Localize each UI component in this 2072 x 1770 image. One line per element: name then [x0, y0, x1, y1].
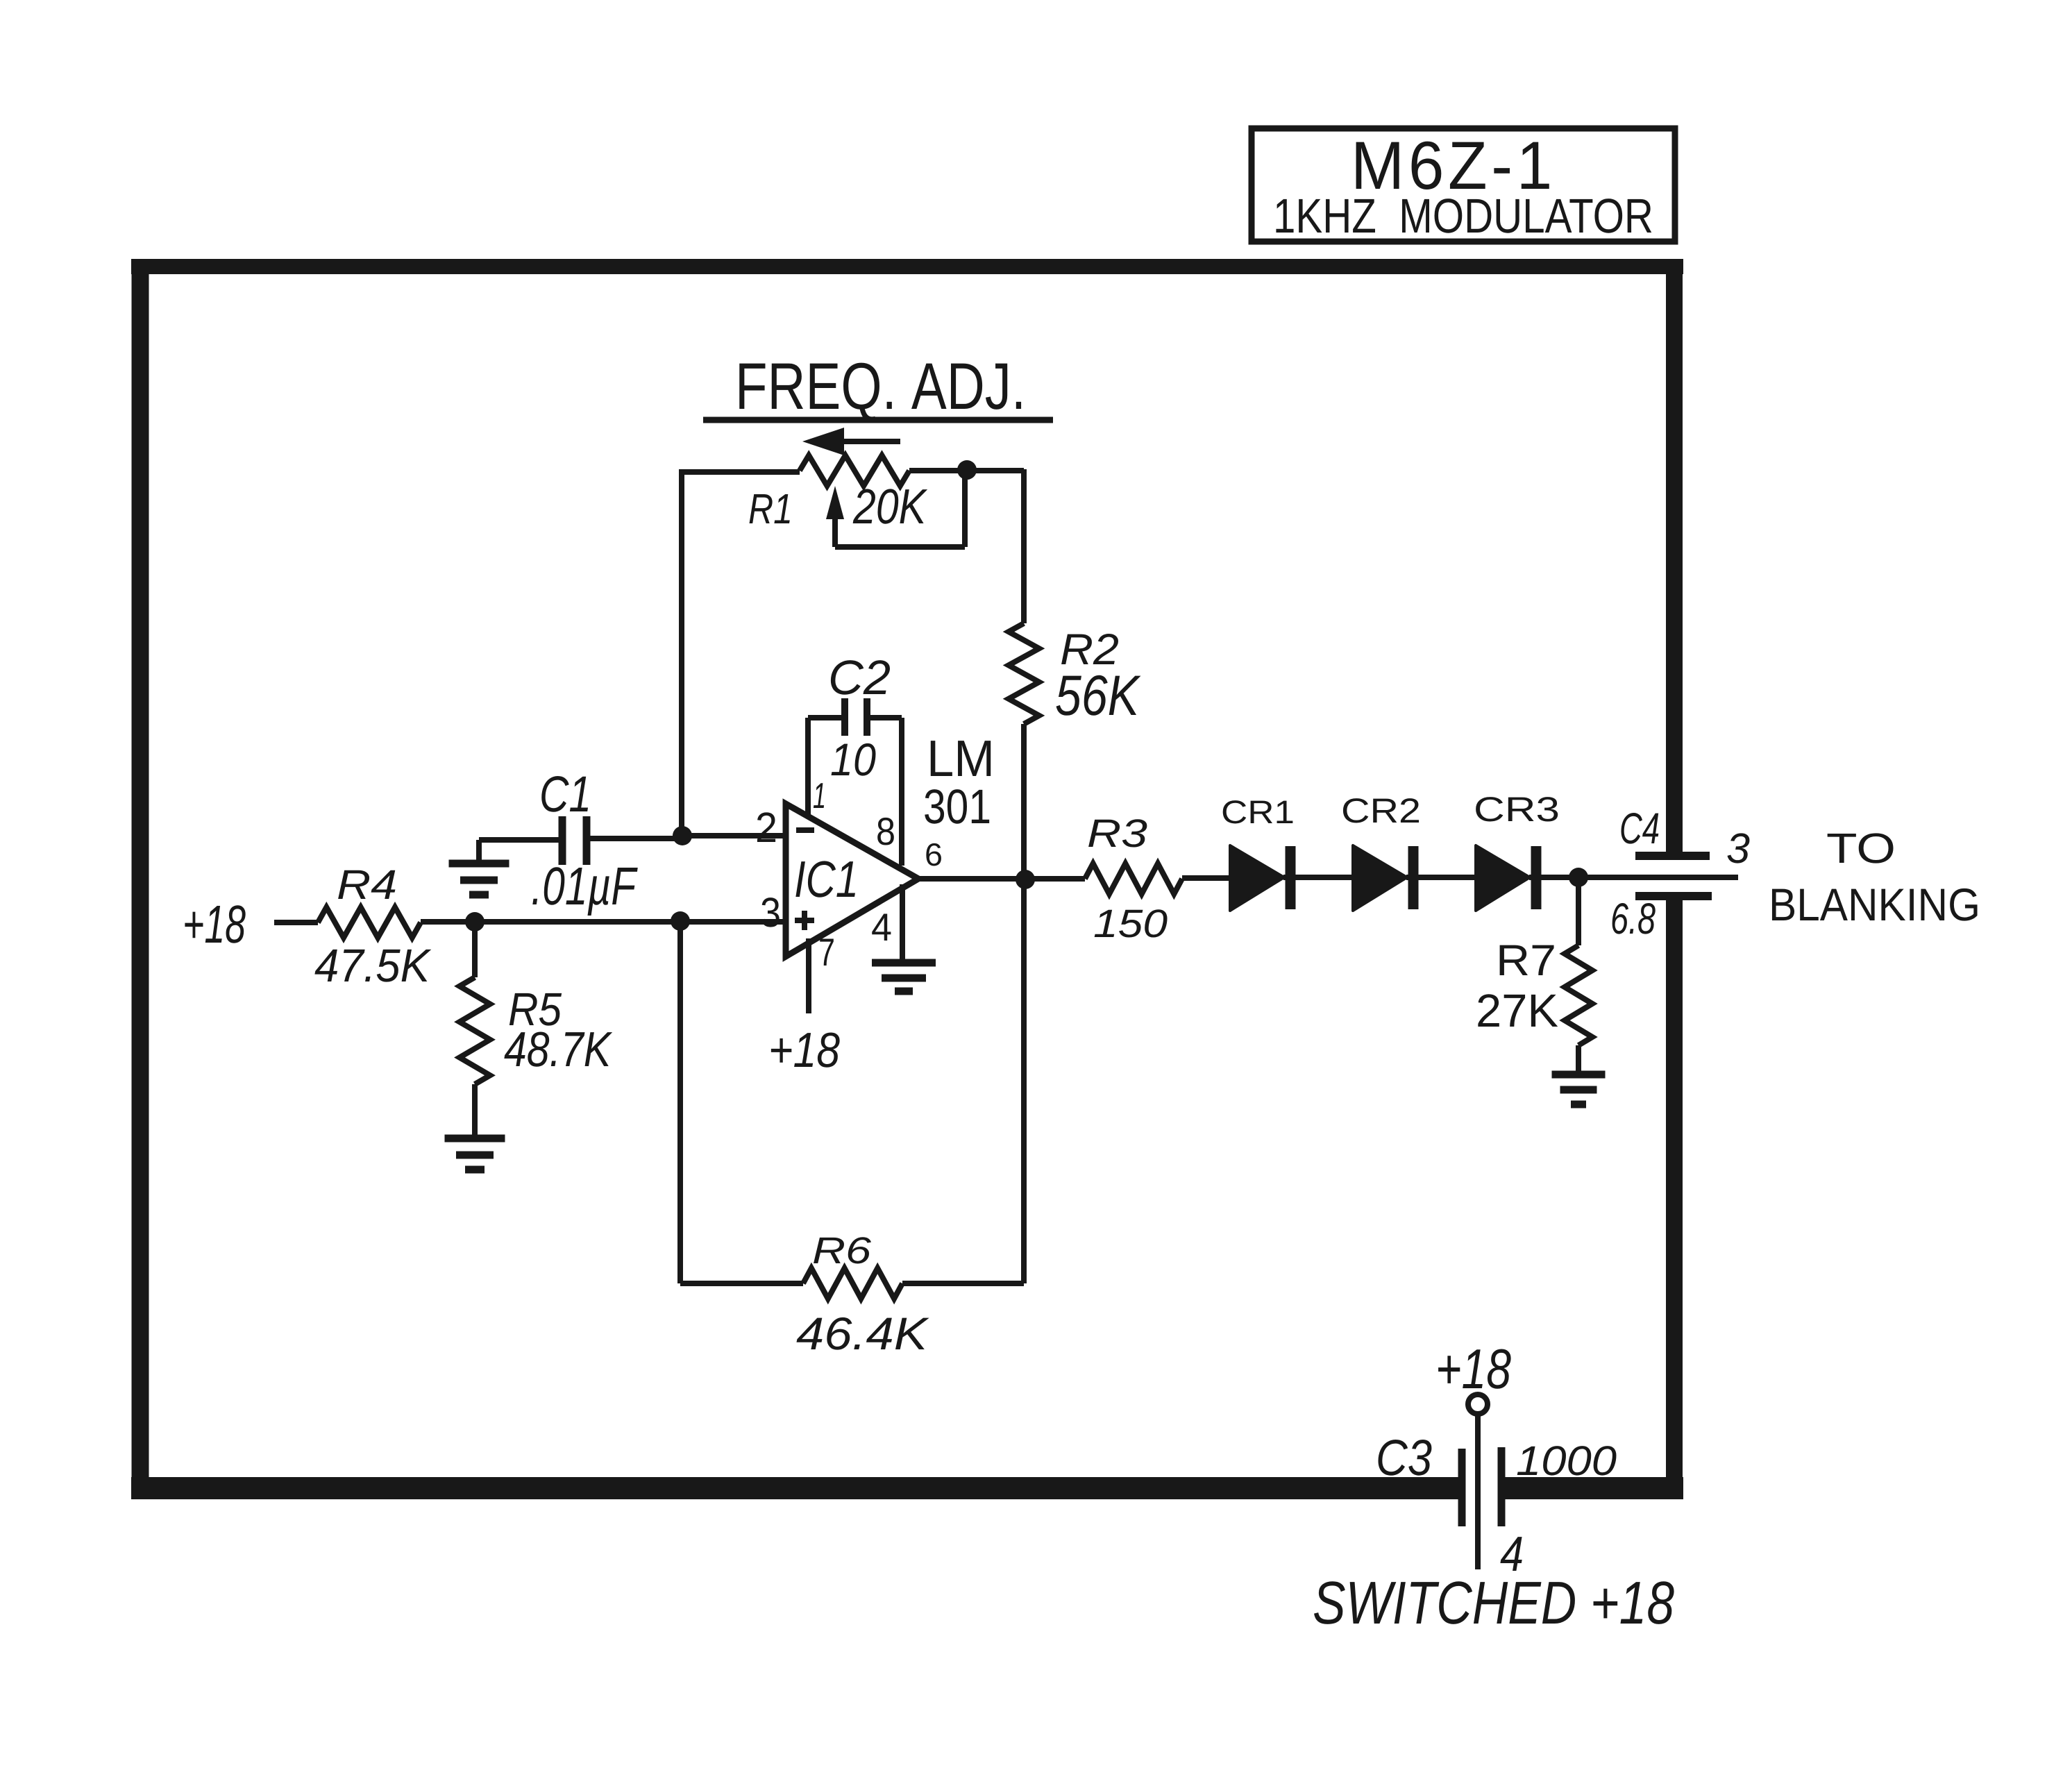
svg-text:FREQ. ADJ.: FREQ. ADJ. — [735, 350, 1026, 423]
svg-text:2: 2 — [755, 804, 777, 851]
svg-text:46.4K: 46.4K — [796, 1308, 929, 1359]
svg-text:CR3: CR3 — [1474, 790, 1560, 829]
svg-text:4: 4 — [871, 905, 892, 949]
svg-text:301: 301 — [923, 779, 991, 834]
svg-text:TO: TO — [1826, 825, 1896, 872]
svg-text:CR2: CR2 — [1341, 791, 1421, 830]
svg-text:BLANKING: BLANKING — [1769, 879, 1980, 930]
svg-text:C3: C3 — [1376, 1430, 1432, 1486]
svg-text:8: 8 — [876, 809, 895, 853]
svg-text:10: 10 — [830, 734, 876, 785]
svg-text:3: 3 — [760, 889, 781, 936]
svg-text:+18: +18 — [183, 895, 246, 954]
svg-text:3: 3 — [1726, 825, 1750, 872]
svg-text:LM: LM — [927, 730, 995, 787]
svg-text:7: 7 — [818, 930, 835, 974]
svg-text:6: 6 — [925, 836, 943, 873]
svg-text:1000: 1000 — [1516, 1438, 1617, 1484]
svg-text:C4: C4 — [1619, 804, 1660, 853]
svg-text:R7: R7 — [1496, 936, 1556, 985]
svg-text:27K: 27K — [1476, 985, 1558, 1037]
svg-text:+18: +18 — [1435, 1338, 1511, 1401]
svg-text:48.7K: 48.7K — [504, 1022, 612, 1077]
svg-text:56K: 56K — [1055, 664, 1141, 727]
svg-text:CR1: CR1 — [1221, 793, 1295, 830]
svg-text:47.5K: 47.5K — [314, 940, 432, 992]
svg-text:+18: +18 — [768, 1023, 840, 1078]
svg-text:1KHZ MODULATOR: 1KHZ MODULATOR — [1273, 189, 1653, 243]
svg-text:150: 150 — [1093, 902, 1168, 946]
svg-text:R1: R1 — [748, 485, 793, 532]
svg-text:IC1: IC1 — [794, 850, 859, 908]
svg-text:6.8: 6.8 — [1610, 895, 1656, 943]
svg-text:R4: R4 — [337, 861, 397, 908]
svg-text:.01µF: .01µF — [531, 857, 638, 916]
svg-text:SWITCHED +18: SWITCHED +18 — [1313, 1569, 1674, 1637]
svg-text:20K: 20K — [852, 480, 927, 534]
svg-text:R6: R6 — [812, 1230, 872, 1272]
svg-text:1: 1 — [813, 776, 826, 816]
svg-text:R3: R3 — [1087, 811, 1147, 856]
svg-text:C2: C2 — [828, 650, 891, 705]
svg-text:C1: C1 — [539, 766, 591, 823]
